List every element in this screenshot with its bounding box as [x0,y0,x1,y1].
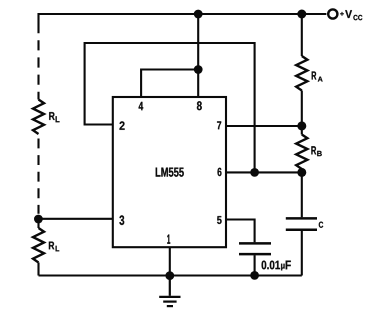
junction pin7 RA RB [297,121,306,130]
pin 8 label [197,101,202,110]
wire bottom ground rail [39,274,302,276]
junction bypass cap bottom rail [250,271,259,280]
pin 3 label [119,215,124,225]
label RL lower [49,242,59,252]
junction pin1 bottom rail [165,271,174,280]
wire pin 6 to RB C junction [226,171,302,173]
label +Vcc [340,10,362,20]
junction pin4 pin8 wire [194,65,203,74]
wire pin 7 to RA RB junction [226,125,302,127]
wire junction to resistor RL2 [37,219,39,228]
wire top rail to RA [301,14,303,56]
pin 6 label [218,168,222,176]
wire capacitor C to bottom rail [301,231,303,276]
wire left branch solid stub from top rail [37,13,39,23]
wire left branch dashed lower [37,139,39,214]
label RA [312,72,323,82]
wire pin 8 to top rail [197,14,199,97]
capacitor 0.01uF plates [239,243,271,254]
label 0.01uF [262,261,291,271]
resistor RL lower load [33,228,44,263]
junction pin2 loop on pin6 wire [250,168,259,177]
resistor RB [296,135,307,170]
pin 7 label [217,121,221,129]
label RL upper [49,112,59,122]
capacitor C plates [286,218,317,229]
ground symbol [159,276,180,307]
pin 2 label [120,121,125,129]
wire pin6 junction to capacitor C [301,172,303,217]
junction pin8 top rail [194,10,203,19]
pin 4 label [139,102,144,110]
pin 5 label [217,216,222,224]
wire RB to pin6 junction [301,169,303,172]
wire pin 2 loop to pin 6 rail [85,43,255,172]
junction pin6 RB C [297,168,306,177]
resistor RA [296,56,307,91]
wire pin 1 to ground [169,247,171,275]
junction node output to RL [34,215,43,224]
wire pin 5 to bypass cap [226,220,255,243]
label RB [311,146,321,156]
wire RL2 to bottom rail [37,263,39,276]
wire pin 4 to pin 8 [141,70,198,98]
wire left branch dashed upper [37,23,39,100]
label C [319,222,323,228]
junction RA top rail [297,10,306,19]
wire bypass cap to bottom rail [254,255,256,275]
label LM555 [156,168,184,177]
wire pin7 junction to RB [301,126,303,135]
IC U1 LM555 body [113,97,226,247]
resistor RL upper load [33,100,44,135]
terminal +Vcc open circle [328,9,337,18]
wire top +Vcc rail [39,13,327,15]
wire RA to pin7 junction [301,91,303,126]
wire pin3 output [38,218,112,220]
pin 1 label [167,235,170,244]
